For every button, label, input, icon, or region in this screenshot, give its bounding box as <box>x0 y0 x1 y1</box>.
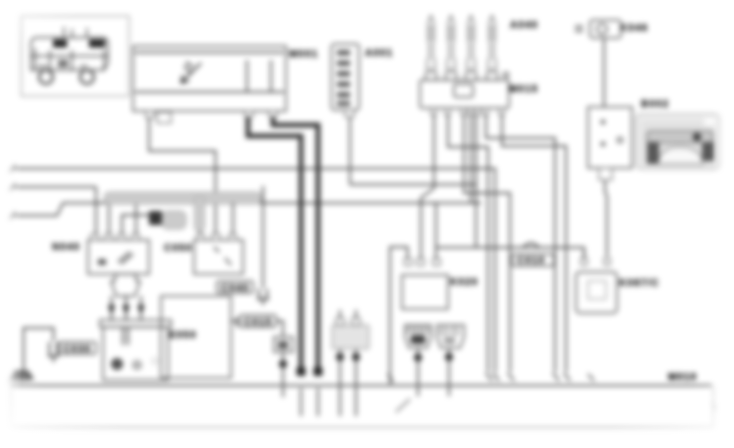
terminal twin 2 <box>352 353 360 361</box>
battery terminals <box>108 305 145 316</box>
earth terminal <box>8 371 33 383</box>
arrow tick bus 3 <box>9 212 15 219</box>
wire S2 down <box>448 348 450 396</box>
plug boots <box>425 72 498 80</box>
fuse slots A001 <box>337 50 350 106</box>
wire bus 3 to C050 pin 3 <box>232 203 234 234</box>
svg-text:E050: E050 <box>169 330 197 341</box>
wire A001 down <box>349 117 351 185</box>
wire M015 pin 4 <box>470 115 472 204</box>
pin C050 1 <box>197 234 204 240</box>
wire M015 pin 2 to rail <box>448 115 488 372</box>
tick marks left of K046 <box>575 27 583 32</box>
cable sheath horizontal <box>104 192 262 204</box>
fuse box A001 <box>332 44 360 110</box>
wire M015 pin 7 to rail <box>502 115 566 372</box>
inline connector <box>274 337 293 352</box>
key symbol in M001 <box>181 62 201 83</box>
spark plugs A040 <box>427 16 496 70</box>
battery connector trapezoid <box>111 274 140 296</box>
svg-text:K020: K020 <box>450 277 478 288</box>
fork clip C030 <box>48 342 59 362</box>
relay K087 <box>576 272 617 313</box>
svg-text:M010: M010 <box>668 372 697 383</box>
pin N040 4 <box>132 234 139 240</box>
wire M015 pin 1 to K020 pin 2 <box>421 115 434 258</box>
wire bus 3 to K020 pin 3 <box>435 203 437 258</box>
pin M001 1 <box>146 111 154 118</box>
earth cable left <box>24 328 54 374</box>
ignition coil module M015 <box>420 73 509 109</box>
pin N040 1 <box>91 234 98 240</box>
bus wire 2 left <box>13 186 96 188</box>
ignition switch B002 <box>588 107 632 168</box>
frame right stub <box>713 387 715 428</box>
svg-text:K046: K046 <box>620 23 648 34</box>
stub thick wire 1 below rail <box>300 388 302 416</box>
wire twin 2 down <box>355 349 357 416</box>
connector gray half <box>162 211 186 229</box>
earth rail M010 <box>10 385 712 387</box>
svg-text:C040: C040 <box>221 283 249 294</box>
hump connector C010 <box>523 243 539 248</box>
pin M001 3 <box>269 111 277 117</box>
battery A001 body <box>103 327 168 380</box>
wire bus 2 to fork C040 <box>262 186 264 288</box>
stubs above twin connector <box>340 310 356 318</box>
pin K087 2 <box>604 258 610 265</box>
pins M015 <box>431 108 504 115</box>
relay K020 <box>402 275 448 309</box>
frame left stub <box>10 386 12 428</box>
wire rail to K020 pin 1 <box>390 247 408 384</box>
wire N040 pin 3 to connector <box>122 215 149 234</box>
stub thick wire 2 below rail <box>317 388 319 416</box>
svg-text:A001: A001 <box>365 48 393 59</box>
pin K020 1 <box>405 259 412 266</box>
connector M001 stub <box>157 112 171 123</box>
terminal dot <box>279 360 287 368</box>
svg-text:N040: N040 <box>52 242 80 253</box>
svg-text:M015: M015 <box>509 84 538 95</box>
battery A001 lid <box>100 320 171 327</box>
lug thick wire 1 <box>297 367 306 376</box>
sensor S1 <box>405 325 431 348</box>
pin K020 2 <box>417 259 424 266</box>
pin C050 2 <box>212 234 220 240</box>
connector C050 <box>194 240 243 274</box>
bus wire 2 right <box>350 184 476 186</box>
fold tick right margin <box>713 402 716 410</box>
inset photo module <box>636 114 720 169</box>
wire N040 pin 4 to bus 3 <box>135 203 137 234</box>
wire K046 to B002 <box>603 38 605 107</box>
vehicle icon <box>31 27 108 84</box>
arrow tick bus 2 <box>9 184 15 191</box>
svg-text:C030: C030 <box>63 344 91 355</box>
wire M001 to C050 <box>149 118 216 234</box>
wire K087 pin 1 up <box>583 249 585 258</box>
svg-text:K087/C: K087/C <box>619 278 660 289</box>
lug thick wire 2 <box>314 367 323 376</box>
twin connector block <box>332 318 369 349</box>
wire B002 to relay K087 pin 2 <box>605 180 607 256</box>
control unit box E050 <box>161 296 231 378</box>
fuse-relay module M001 <box>133 46 286 111</box>
wire N040 pin 2 to sheath <box>108 198 110 234</box>
wire M015 pin 3 to rail <box>464 115 510 372</box>
terminal twin 1 <box>336 353 344 361</box>
svg-text:B002: B002 <box>641 99 669 110</box>
arrow tick bus 1 <box>9 165 15 172</box>
label C040 <box>217 281 253 294</box>
wire node to K087 pin 1 <box>436 248 584 259</box>
rail hooks <box>486 373 594 381</box>
svg-text:C015: C015 <box>244 317 272 328</box>
svg-text:C010: C010 <box>517 256 545 267</box>
connector label C010 <box>512 254 554 266</box>
fork stub right of E050 <box>231 317 237 327</box>
horn relay N040 <box>88 240 149 274</box>
svg-text:M001: M001 <box>289 49 318 60</box>
pin N040 3 <box>118 234 125 240</box>
wire S1 down <box>417 348 419 396</box>
wire connector to below rail <box>282 352 284 397</box>
terminal S2 <box>445 353 453 361</box>
wire M015 pin 6 to rail <box>486 115 555 372</box>
pin K020 3 <box>433 259 440 266</box>
wires terminals to battery <box>112 314 142 321</box>
pin A001 <box>345 110 354 117</box>
slash mark <box>396 399 410 412</box>
wires trapezoid to terminals <box>112 296 142 305</box>
pin C050 3 <box>229 234 236 240</box>
wire M015 pin 5 down <box>475 115 477 248</box>
svg-text:C050: C050 <box>164 243 192 254</box>
cable sheath drop <box>195 196 205 231</box>
fork clip C040 <box>257 289 269 305</box>
vehicle legend box <box>21 16 129 96</box>
sensor S2 <box>437 325 464 348</box>
wire sheath to C050 pin 1 <box>199 231 201 240</box>
bus wire 1 <box>13 169 495 373</box>
thick wire 1 <box>248 117 301 369</box>
label C015 <box>240 315 276 328</box>
connector below B002 <box>599 168 612 180</box>
label C030 <box>59 342 96 355</box>
hook K020 earth wire <box>388 374 393 382</box>
sensor K046 <box>590 20 621 38</box>
pin M001 2 <box>245 111 253 117</box>
pin K087 1 <box>581 258 587 265</box>
terminal S1 <box>414 354 422 362</box>
svg-text:A040: A040 <box>510 20 538 31</box>
bus wire 3 <box>13 203 481 216</box>
wire C015 to connector <box>276 321 283 337</box>
pin N040 2 <box>105 234 112 240</box>
frame bottom line <box>10 427 714 429</box>
connector dark half <box>149 211 162 225</box>
wire N040 pin 1 to bus 2 <box>95 187 97 234</box>
thick wire 2 <box>273 117 318 369</box>
wire twin 1 down <box>339 349 341 416</box>
